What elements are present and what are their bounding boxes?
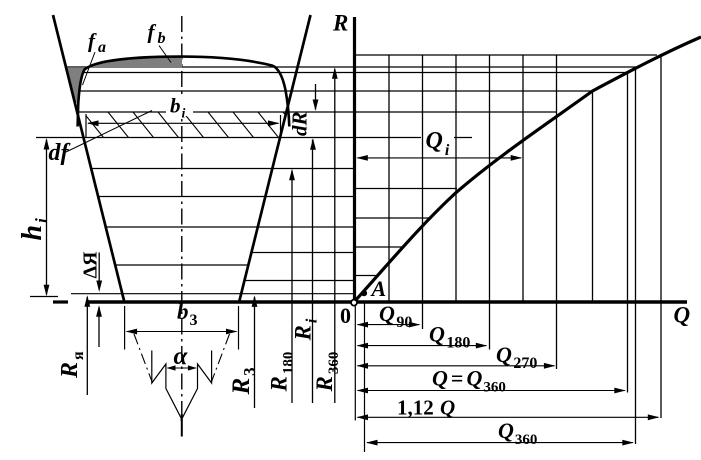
svg-text:df: df [49,140,71,166]
svg-text:ΔЯ: ΔЯ [80,251,102,279]
svg-text:A: A [370,276,387,301]
svg-text:1,12 Q: 1,12 Q [397,396,455,420]
svg-text:Q: Q [674,303,691,328]
svg-text:R: R [332,11,348,36]
svg-text:0: 0 [340,303,351,328]
svg-text:dR: dR [288,111,312,136]
svg-text:α: α [174,343,189,370]
